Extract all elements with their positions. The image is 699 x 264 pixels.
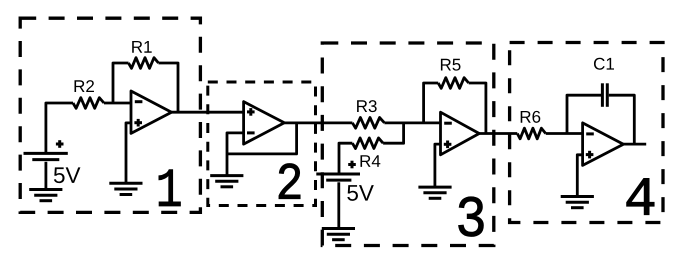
- battery B3 plus sign: [348, 163, 356, 166]
- U4 minus sign: [586, 132, 594, 135]
- stage label 2: [279, 164, 300, 199]
- box stage 3: [322, 43, 494, 246]
- stage label 4: [627, 178, 654, 214]
- battery B1 5V label: [54, 167, 65, 183]
- R5 value label: [441, 59, 451, 71]
- wire R3 to U3 inverting input: [384, 121, 440, 124]
- R6 value label: [521, 111, 531, 123]
- ground stage 2: [210, 174, 243, 177]
- resistor R6: [517, 128, 545, 139]
- U3 minus sign: [444, 122, 452, 125]
- resistor R3: [352, 118, 384, 129]
- resistor R1: [129, 58, 159, 69]
- ground below op-amp U4: [561, 195, 594, 198]
- op-amp U2: [244, 102, 285, 145]
- stage label 3: [459, 197, 484, 237]
- wire U4 output: [623, 143, 646, 146]
- resistor R5: [438, 78, 469, 89]
- ground below op-amp U3: [418, 186, 451, 189]
- wire R5 left branch: [424, 83, 439, 123]
- wire battery B3 to ground: [337, 182, 340, 228]
- box stage 2: [208, 82, 316, 206]
- wire R1 right branch to output: [159, 63, 179, 112]
- wire U3 output to stage 4: [479, 132, 517, 135]
- wire U2 feedback drop: [227, 123, 297, 154]
- R1 value label: [132, 41, 142, 53]
- ground below battery B1: [29, 188, 62, 191]
- wire R5 right branch to output: [469, 83, 486, 134]
- wire summing node down to R4: [383, 123, 404, 143]
- wire R4 to battery B3: [339, 143, 352, 173]
- R2 value label: [74, 80, 84, 92]
- wire R6 to U4 inverting input: [546, 132, 583, 135]
- U1 minus sign: [135, 100, 143, 103]
- wire node A to R1 left branch: [113, 63, 129, 103]
- ground below battery B3: [322, 227, 355, 230]
- wire U4 noninverting input to ground: [577, 155, 582, 197]
- resistor R4: [352, 138, 383, 149]
- wire U3 noninverting input to ground: [435, 144, 441, 187]
- wire battery B1 top to R2: [46, 103, 73, 152]
- box stage 1: [20, 18, 200, 212]
- U2 minus sign: [247, 131, 255, 134]
- U3 plus sign: [444, 143, 452, 146]
- battery B1: [24, 152, 68, 155]
- wire U1 noninverting input to ground: [126, 123, 131, 183]
- capacitor C1: [601, 83, 604, 107]
- battery B1 plus sign: [56, 143, 64, 146]
- U4 plus sign: [586, 153, 594, 156]
- op-amp U1: [131, 91, 172, 133]
- wire C1 left branch: [567, 95, 601, 133]
- R3 value label: [357, 100, 367, 112]
- R4 value label: [360, 155, 370, 167]
- wire C1 right branch to output: [609, 95, 635, 144]
- battery B3 5V label: [347, 185, 358, 201]
- battery B3: [316, 173, 360, 176]
- C1 value label: [594, 58, 605, 70]
- op-amp U4: [583, 123, 624, 165]
- wire battery B1 to ground: [45, 162, 48, 190]
- stage label 1: [159, 170, 181, 206]
- U2 plus sign: [247, 110, 255, 113]
- wire U1 output to U2 input: [172, 111, 244, 114]
- U1 plus sign: [134, 121, 142, 124]
- ground below op-amp U1: [109, 182, 142, 185]
- resistor R2: [73, 98, 104, 109]
- wire U2 output to stage 3: [284, 121, 352, 124]
- op-amp U3: [441, 112, 480, 155]
- wire R2 to op-amp U1 inverting input: [104, 102, 131, 105]
- wire U2 inverting input down to ground: [227, 133, 244, 176]
- box stage 4: [510, 43, 663, 223]
